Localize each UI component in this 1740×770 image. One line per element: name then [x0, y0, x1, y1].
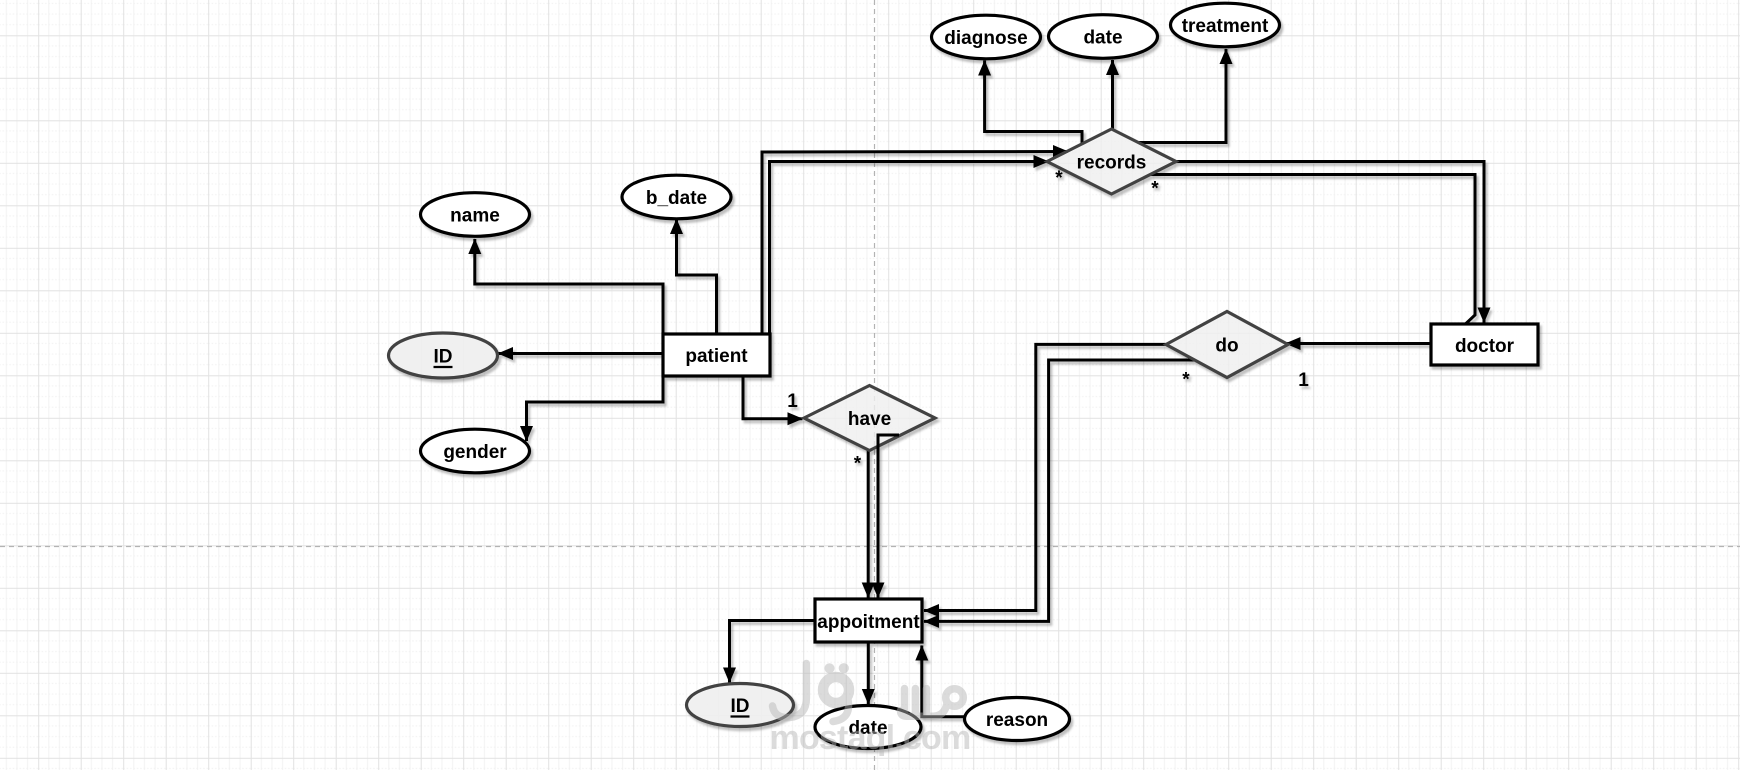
svg-text:doctor: doctor — [1455, 336, 1515, 357]
svg-text:date: date — [1083, 28, 1122, 49]
watermark mostaql logo — [770, 663, 971, 757]
svg-text:do: do — [1215, 336, 1238, 357]
wire patient to records upper — [762, 152, 1068, 335]
wire patient to have — [743, 376, 803, 419]
svg-text:appoitment: appoitment — [817, 612, 920, 633]
svg-text:records: records — [1077, 152, 1147, 173]
wire doctor to do — [1286, 342, 1432, 345]
attribute gender — [421, 429, 530, 473]
attribute ID2 (appoitment key) — [687, 684, 794, 727]
wire records to doctor outer — [1176, 162, 1484, 323]
svg-text:*: * — [1182, 370, 1190, 391]
svg-text:gender: gender — [443, 442, 507, 463]
svg-text:treatment: treatment — [1182, 16, 1269, 37]
attribute diagnose — [932, 15, 1041, 59]
page boundary dashed vertical — [874, 0, 876, 770]
wire records to date — [1111, 60, 1114, 129]
relationship have — [804, 386, 935, 451]
svg-text:ID: ID — [434, 347, 453, 368]
wire have to appoitment left — [867, 450, 870, 598]
svg-text:mostaql.com: mostaql.com — [770, 719, 971, 757]
entity doctor — [1431, 324, 1538, 365]
wire have to appoitment right — [878, 435, 899, 598]
wire appoitment to ID2 — [730, 621, 816, 683]
svg-text:b_date: b_date — [646, 188, 707, 209]
wire patient to name — [475, 239, 663, 334]
attribute b_date — [622, 175, 731, 219]
attribute date (records) — [1049, 15, 1158, 59]
relationship do — [1166, 312, 1288, 378]
svg-text:patient: patient — [685, 346, 748, 367]
svg-text:*: * — [1151, 179, 1159, 200]
attribute name — [421, 193, 530, 237]
svg-text:have: have — [848, 409, 891, 430]
svg-text:reason: reason — [986, 710, 1048, 731]
wire patient to records lower — [770, 162, 1049, 335]
attribute ID (patient key) — [389, 333, 498, 378]
wire patient to ID — [498, 352, 663, 355]
entity patient — [663, 334, 770, 376]
relationship records — [1047, 129, 1176, 194]
wire patient to b_date — [677, 219, 717, 334]
page boundary dashed horizontal — [0, 546, 1740, 548]
wire do to appoitment lower — [924, 360, 1195, 621]
svg-text:ID: ID — [731, 696, 750, 717]
wire records to doctor inner — [1150, 175, 1475, 325]
wire records to diagnose — [985, 61, 1082, 145]
svg-text:diagnose: diagnose — [944, 28, 1027, 49]
attribute treatment — [1171, 3, 1280, 47]
wire patient to gender — [527, 376, 664, 441]
wire reason to appoitment — [922, 646, 965, 717]
svg-text:1: 1 — [787, 391, 798, 412]
wire do to appoitment upper — [924, 344, 1166, 610]
svg-text:*: * — [1055, 168, 1063, 189]
svg-text:*: * — [854, 454, 862, 475]
attribute reason — [965, 698, 1070, 741]
svg-text:1: 1 — [1298, 370, 1309, 391]
attribute date (appoitment) — [815, 706, 921, 749]
svg-text:name: name — [450, 206, 500, 227]
entity appoitment — [815, 599, 922, 642]
wire appoitment to date — [867, 642, 870, 704]
wire records to treatment — [1139, 49, 1227, 143]
